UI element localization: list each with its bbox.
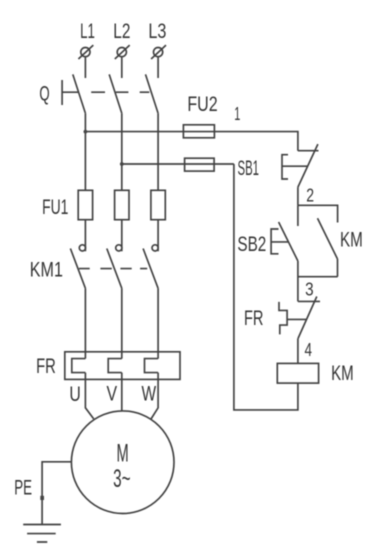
svg-text:L1: L1 — [80, 20, 95, 43]
svg-text:KM1: KM1 — [30, 259, 63, 282]
svg-text:FU2: FU2 — [187, 93, 217, 116]
svg-text:FU1: FU1 — [42, 196, 68, 219]
svg-text:W: W — [142, 383, 157, 406]
svg-text:SB1: SB1 — [238, 157, 260, 180]
svg-text:L2: L2 — [113, 20, 130, 43]
svg-text:FR: FR — [244, 307, 264, 330]
svg-text:Q: Q — [39, 83, 49, 106]
svg-text:KM: KM — [340, 228, 363, 251]
svg-text:2: 2 — [306, 185, 314, 205]
svg-text:3~: 3~ — [113, 465, 130, 493]
svg-text:L3: L3 — [148, 20, 166, 43]
svg-text:4: 4 — [305, 340, 313, 360]
svg-text:U: U — [69, 383, 80, 406]
svg-text:M: M — [117, 440, 129, 468]
svg-text:1: 1 — [234, 104, 240, 124]
svg-text:KM: KM — [331, 362, 354, 385]
svg-text:SB2: SB2 — [237, 233, 266, 256]
svg-text:FR: FR — [36, 355, 56, 378]
svg-text:PE: PE — [14, 477, 32, 500]
svg-text:3: 3 — [305, 280, 314, 300]
svg-text:V: V — [107, 383, 118, 406]
